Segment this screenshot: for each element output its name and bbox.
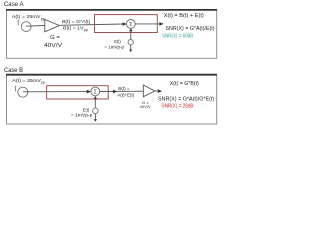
svg-text:SNR(X) = G*A(t)/G*E(t): SNR(X) = G*A(t)/G*E(t) — [158, 97, 215, 103]
svg-text:E(t): E(t) — [114, 39, 121, 44]
svg-text:G =: G = — [50, 35, 60, 41]
svg-text:40V/V: 40V/V — [140, 104, 151, 109]
svg-text:pp: pp — [41, 81, 45, 85]
svg-text:pp: pp — [84, 28, 88, 32]
svg-text:X(t) = G*B(t): X(t) = G*B(t) — [170, 81, 199, 87]
svg-text:SNR(X) = G*A(t)/E(t): SNR(X) = G*A(t)/E(t) — [166, 26, 215, 32]
svg-text:40V/V: 40V/V — [44, 43, 62, 49]
svg-text:B(t) = G*A(t): B(t) = G*A(t) — [62, 19, 91, 25]
svg-text:Case A: Case A — [4, 1, 24, 8]
svg-text:= 1mVp-p: = 1mVp-p — [104, 44, 124, 49]
svg-text:A(t) = 25mV: A(t) = 25mV — [12, 14, 41, 20]
svg-text:pp: pp — [41, 17, 45, 21]
svg-text:X(t) = B(t) + E(t): X(t) = B(t) + E(t) — [164, 13, 204, 19]
svg-text:B(t) = 1V: B(t) = 1V — [63, 26, 84, 32]
svg-text:SNR(X) = 28dB: SNR(X) = 28dB — [162, 104, 195, 110]
svg-text:A(t) = 25mV: A(t) = 25mV — [12, 78, 41, 84]
svg-text:Case B: Case B — [4, 67, 23, 74]
svg-text:= 1mVp-p: = 1mVp-p — [71, 113, 93, 118]
svg-text:B(t) =: B(t) = — [118, 86, 130, 91]
svg-text:A(t)+E(t): A(t)+E(t) — [117, 93, 134, 98]
svg-text:SNR(X) = 60dB: SNR(X) = 60dB — [162, 34, 194, 40]
